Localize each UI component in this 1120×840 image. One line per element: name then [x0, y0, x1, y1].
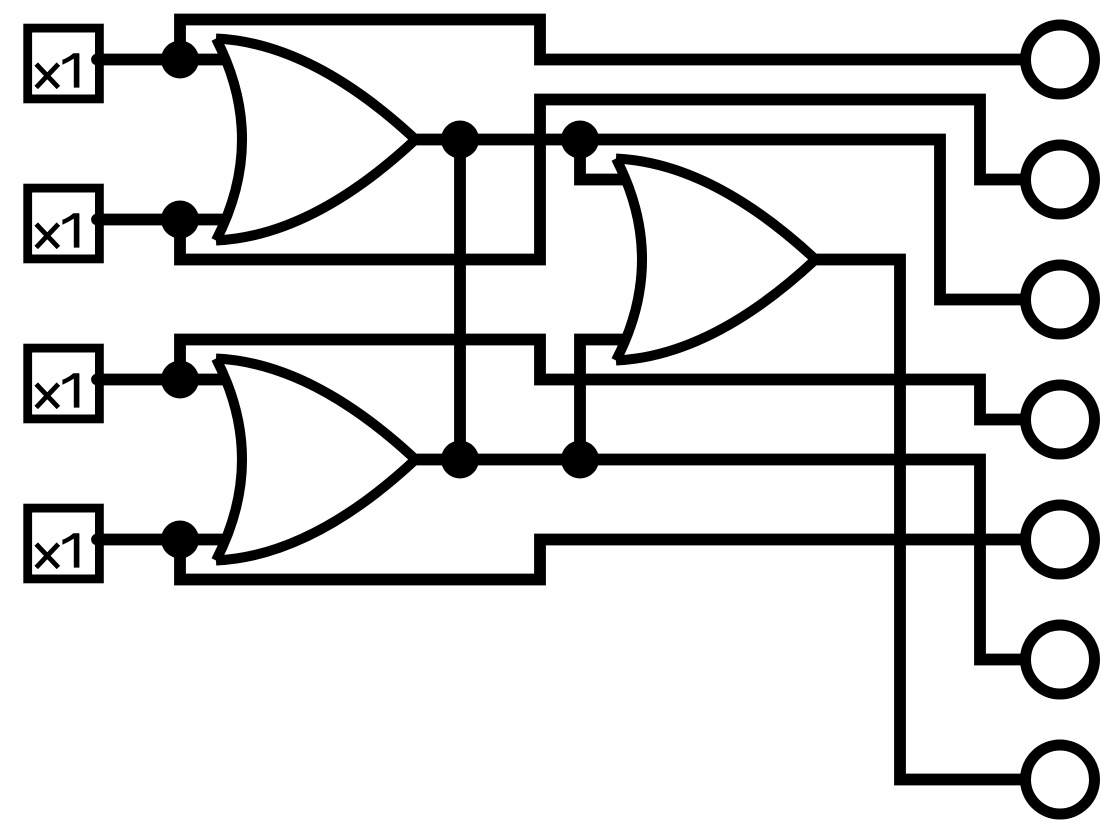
or-gate U1 top edge: [216, 39, 416, 140]
junction dot U1 output b: [561, 121, 599, 159]
input box X1c: [28, 348, 100, 419]
wire net B: input2 to gate U1 bottom input: [97, 214, 232, 226]
or-gate U3 input-side concave arc: [216, 359, 242, 561]
or-gate U2 input-side concave arc: [616, 159, 642, 361]
junction dot U3 output a: [441, 441, 479, 479]
output circle O7: [1026, 745, 1095, 814]
wire net C: gate U1 output row to output circle O3: [408, 140, 1026, 300]
junction dot input4: [161, 521, 199, 559]
wire net C: vertical link to net E row: [454, 140, 466, 460]
or-gate U1 body fill: [216, 39, 416, 241]
output circle O4: [1026, 385, 1095, 454]
junction dot input1: [161, 41, 199, 79]
or-gate U3 bottom edge: [216, 460, 416, 561]
wire net C: branch to gate U2 top input: [580, 140, 631, 180]
label x1 box4: [36, 533, 79, 567]
or-gate U2 bottom edge: [616, 260, 816, 361]
junction dot input2: [161, 201, 199, 239]
wire net E: gate U3 output row to output circle O6: [408, 460, 1026, 660]
or-gate U1 input-side concave arc: [216, 39, 242, 241]
output circle O1: [1026, 25, 1095, 94]
label x1 box2: [36, 213, 79, 247]
wire net E: branch to gate U2 bottom input: [580, 340, 631, 460]
or-gate U2 body fill: [616, 159, 816, 361]
input box X1b: [28, 188, 100, 259]
output circle O3: [1026, 265, 1095, 334]
output circle O2: [1026, 145, 1095, 214]
output circle O6: [1026, 625, 1095, 694]
wire net A: loop over gate U1 to output circle O1: [180, 20, 1026, 60]
label x1 box1: [36, 53, 79, 87]
wire net F: loop under gate U3 to output circle O5: [180, 540, 1026, 580]
label x1 box3: [36, 373, 79, 407]
input box X1a: [28, 28, 100, 99]
input box X1d: [28, 508, 100, 579]
wire net A: input1 to gate U1 top input: [97, 54, 232, 66]
wire net B: loop under gate U1 to output circle O2: [180, 100, 1026, 260]
or-gate U3 body fill: [216, 359, 416, 561]
wire net D: input3 to gate U3 top input: [97, 374, 232, 386]
wire net D: loop over gate U3 to output circle O4: [180, 340, 1026, 420]
junction dot U3 output b: [561, 441, 599, 479]
or-gate U2 top edge: [616, 159, 816, 260]
or-gate U1 bottom edge: [216, 140, 416, 241]
wire net F: input4 to gate U3 bottom input: [97, 534, 232, 546]
output circle O5: [1026, 505, 1095, 574]
wire net G: gate U2 output to output circle O7: [812, 260, 1026, 780]
junction dot input3: [161, 361, 199, 399]
or-gate U3 top edge: [216, 359, 416, 460]
junction dot U1 output a: [441, 121, 479, 159]
